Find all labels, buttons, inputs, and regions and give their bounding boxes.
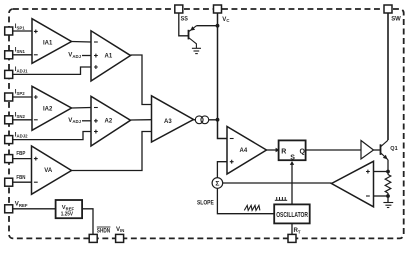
wire VADJ stub A1 xyxy=(82,55,91,57)
amplifier VA xyxy=(32,146,72,194)
arrow into R xyxy=(276,148,280,152)
driver buffer xyxy=(361,141,374,160)
wire resistor bottom to ground xyxy=(387,193,389,203)
pin IADJ2 xyxy=(5,136,13,144)
pin SS xyxy=(175,5,183,13)
amplifier A1 xyxy=(91,31,131,81)
wire IA1 out to A1 - xyxy=(72,41,92,44)
wire sense amp out to sigma xyxy=(223,182,332,184)
svg-text:S: S xyxy=(290,155,295,162)
wire sigma to A4 + input xyxy=(217,162,227,178)
wire A3 current source to VC node xyxy=(194,119,218,121)
wire ISN1 to IA1 - xyxy=(13,54,32,56)
pin VIN xyxy=(116,234,124,242)
A1 plus bottom xyxy=(94,65,98,69)
svg-text:ISP2: ISP2 xyxy=(15,89,25,96)
svg-text:FBP: FBP xyxy=(16,151,25,157)
A4 plus xyxy=(230,160,234,164)
clamp transistor at SS (PNP) xyxy=(189,26,197,49)
current sense amplifier xyxy=(332,161,374,207)
transistor Q1 (NPN) xyxy=(381,140,389,160)
oscillator box xyxy=(274,204,310,223)
svg-text:VADJ: VADJ xyxy=(68,117,81,124)
svg-text:A1: A1 xyxy=(105,54,113,60)
IA1 plus xyxy=(34,30,38,34)
wire FBP to VA + xyxy=(13,158,32,160)
svg-text:A2: A2 xyxy=(105,119,113,125)
overline on SHDN xyxy=(97,226,111,228)
svg-text:R: R xyxy=(281,148,286,155)
ground (SS clamp) xyxy=(192,48,201,53)
pin FBN xyxy=(5,178,13,186)
A2 plus bottom xyxy=(94,130,98,134)
wire latch Q to driver xyxy=(306,149,362,151)
clock symbol xyxy=(275,197,287,200)
svg-text:VIN: VIN xyxy=(116,226,124,233)
svg-text:SHDN: SHDN xyxy=(97,228,110,234)
wire sigma down and right to oscillator (slope) xyxy=(217,188,274,213)
svg-text:IA2: IA2 xyxy=(43,107,53,113)
wire clamp emitter to VC line xyxy=(197,25,218,27)
A2 plus mid xyxy=(94,119,98,123)
amplifier IA1 xyxy=(32,19,72,64)
pin RT xyxy=(288,234,296,242)
svg-text:OSCILLATOR: OSCILLATOR xyxy=(276,212,308,219)
svg-text:IADJ1: IADJ1 xyxy=(15,66,28,73)
pin ISN2 xyxy=(5,116,13,124)
svg-text:Q1: Q1 xyxy=(390,146,397,152)
pin VREF xyxy=(5,205,13,213)
ground (sense resistor) xyxy=(383,203,393,208)
wire RT pin to oscillator xyxy=(291,223,293,234)
svg-text:SW: SW xyxy=(391,15,402,22)
current source symbol at A3 output xyxy=(195,116,208,124)
svg-text:1.25V: 1.25V xyxy=(61,212,73,218)
svg-text:VC: VC xyxy=(222,16,229,23)
svg-text:SS: SS xyxy=(181,16,189,23)
pin SHDN xyxy=(89,234,97,242)
svg-text:Σ: Σ xyxy=(215,181,219,188)
comparator A4 xyxy=(227,127,267,175)
svg-text:IADJ2: IADJ2 xyxy=(15,131,28,138)
wire oscillator to latch S xyxy=(291,164,293,205)
svg-text:VREF: VREF xyxy=(62,205,75,211)
svg-text:VA: VA xyxy=(44,168,53,174)
wire ISP1 to IA1 + xyxy=(13,30,32,32)
wire driver to Q1 base xyxy=(374,149,381,151)
svg-text:A3: A3 xyxy=(164,119,172,125)
A1 plus mid xyxy=(94,54,98,58)
IA2 plus xyxy=(34,95,38,99)
svg-text:ISP1: ISP1 xyxy=(15,23,25,30)
sense amp minus xyxy=(366,195,370,197)
input polarity marks xyxy=(34,30,370,197)
wire VREF pin to reference box xyxy=(13,208,56,210)
wire VA out to A3 bottom input xyxy=(72,132,152,171)
wire SW pin down to Q1 collector xyxy=(387,13,389,140)
pin VC xyxy=(214,5,222,13)
svg-text:Q: Q xyxy=(300,148,306,155)
IA1 minus xyxy=(34,54,38,56)
summing node sigma xyxy=(212,178,223,189)
VA minus xyxy=(34,181,38,183)
VA plus xyxy=(34,157,38,161)
wire IADJ2 to A2 + xyxy=(13,132,91,140)
wire A4 out to latch R xyxy=(267,149,278,151)
svg-text:RT: RT xyxy=(294,227,301,234)
pin ISN1 xyxy=(5,51,13,59)
junction dots xyxy=(216,24,220,28)
amplifier A2 xyxy=(91,96,131,146)
arrow into S xyxy=(290,161,294,165)
svg-text:ISN2: ISN2 xyxy=(15,112,26,119)
wire IA2 out to A2 - xyxy=(72,107,92,110)
svg-text:VREF: VREF xyxy=(15,201,28,208)
IA2 minus xyxy=(34,119,38,121)
svg-text:VADJ: VADJ xyxy=(68,52,81,59)
RS latch xyxy=(279,140,306,160)
A4 minus xyxy=(230,138,234,140)
pin IADJ1 xyxy=(5,70,13,78)
amplifier IA2 xyxy=(32,86,72,130)
wire reference box to SHDN pin xyxy=(82,209,93,235)
wire ISN2 to IA2 - xyxy=(13,119,32,121)
A2 minus xyxy=(94,107,98,109)
A1 minus xyxy=(94,41,98,43)
wire FBN to VA - xyxy=(13,181,32,183)
wire IADJ1 to A1 + xyxy=(13,67,91,74)
svg-text:A4: A4 xyxy=(240,148,248,154)
wire sense amp + tap xyxy=(374,171,389,173)
pin SW xyxy=(384,5,392,13)
svg-text:FBN: FBN xyxy=(16,175,25,181)
pin ISP1 xyxy=(5,27,13,35)
wire A1 out to A3 top input xyxy=(131,55,152,105)
sense amp plus xyxy=(366,170,370,174)
pin ISP2 xyxy=(5,93,13,101)
reference box VREF 1.25V xyxy=(56,200,83,218)
svg-text:ISN1: ISN1 xyxy=(15,47,26,54)
svg-text:SLOPE: SLOPE xyxy=(197,199,214,206)
amplifier A3 xyxy=(152,96,194,142)
wire A2 out to A3 mid input xyxy=(131,119,152,121)
wire ISP2 to IA2 + xyxy=(13,96,32,98)
sawtooth slope symbol xyxy=(244,205,260,210)
svg-text:IA1: IA1 xyxy=(43,41,53,47)
wire VC pin down to A4 - input xyxy=(218,13,228,139)
wire VADJ stub A2 xyxy=(82,120,91,122)
resistor (emitter sense) xyxy=(385,175,391,194)
wire Q1 emitter down to sense node xyxy=(387,160,389,175)
pin FBP xyxy=(5,155,13,163)
wire SS pin to clamp transistor base xyxy=(179,13,188,36)
wire sense amp - tap xyxy=(374,195,389,197)
